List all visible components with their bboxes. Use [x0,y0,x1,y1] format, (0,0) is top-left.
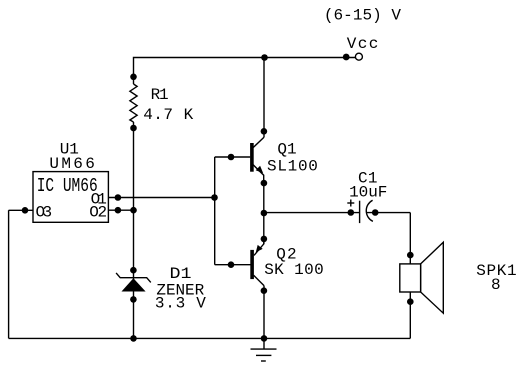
svg-text:R1: R1 [151,86,169,104]
svg-text:Vcc: Vcc [347,35,379,53]
svg-text:8: 8 [491,276,501,294]
svg-text:10uF: 10uF [349,184,387,202]
svg-text:D1: D1 [170,265,192,283]
svg-text:O2: O2 [89,203,107,221]
svg-text:SK 100: SK 100 [264,261,324,279]
svg-text:IC UM66: IC UM66 [37,175,98,197]
svg-text:3.3 V: 3.3 V [155,294,206,312]
svg-text:SL100: SL100 [267,157,318,175]
svg-text:(6-15) V: (6-15) V [324,6,401,24]
svg-text:4.7 K: 4.7 K [143,106,193,124]
svg-text:O3: O3 [36,203,53,221]
svg-text:Q1: Q1 [277,141,296,159]
